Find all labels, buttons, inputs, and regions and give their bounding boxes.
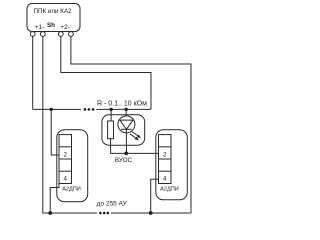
LED triangle bbox=[120, 120, 133, 129]
wire resistor top bbox=[110, 109, 112, 121]
LED cathode bar bbox=[121, 128, 132, 130]
svg-text:4: 4 bbox=[163, 176, 167, 183]
node top bus drop bbox=[50, 108, 53, 111]
LED arrow 2 bbox=[130, 134, 137, 139]
left detector box bbox=[57, 130, 88, 202]
VUOS box bbox=[102, 115, 145, 145]
svg-text:А2ДПИ: А2ДПИ bbox=[160, 187, 179, 193]
svg-text:Sh: Sh bbox=[47, 22, 55, 29]
wire terminal2 down bbox=[43, 36, 97, 213]
bottom bus dots ellipsis bbox=[99, 212, 109, 215]
svg-text:+1-: +1- bbox=[35, 24, 45, 31]
wire bottom bus right bbox=[111, 212, 191, 214]
wire top bus right bbox=[96, 108, 151, 110]
wire resistor bottom bbox=[111, 139, 127, 154]
wire drop to left detector pin2 bbox=[51, 109, 59, 155]
terminal 3 bbox=[58, 32, 63, 37]
svg-text:2: 2 bbox=[163, 151, 167, 158]
svg-text:R - 0.1.. 10 кОм: R - 0.1.. 10 кОм bbox=[97, 101, 147, 108]
top bus dots ellipsis bbox=[84, 108, 95, 111]
svg-text:ППК или КА2: ППК или КА2 bbox=[34, 8, 72, 15]
node LED bottom junction bbox=[124, 152, 128, 156]
right detector box bbox=[156, 130, 188, 200]
resistor R bbox=[108, 121, 114, 139]
terminal 1 bbox=[30, 32, 35, 37]
svg-text:ВУОС: ВУОС bbox=[115, 157, 133, 164]
node left pin4 junction bbox=[48, 211, 52, 215]
terminal 4 bbox=[69, 32, 74, 37]
svg-text:до 255 АУ: до 255 АУ bbox=[97, 200, 128, 207]
svg-text:+2-: +2- bbox=[60, 24, 70, 31]
node resistor top bbox=[109, 108, 112, 111]
wire bottom vuos bus to right pin2 bbox=[126, 152, 158, 154]
wire LED bottom bbox=[125, 129, 127, 153]
panel PPK box bbox=[27, 4, 80, 32]
LED arrow 1 bbox=[132, 132, 139, 137]
node right pin4 junction bbox=[149, 211, 153, 215]
svg-text:4: 4 bbox=[63, 176, 67, 183]
terminal 2 bbox=[40, 32, 45, 37]
wire left detector pin4 bbox=[50, 184, 59, 214]
wire right detector pin4 bbox=[151, 179, 159, 213]
svg-text:А2ДПИ: А2ДПИ bbox=[62, 187, 81, 193]
wire terminal4 outer loop bbox=[71, 36, 191, 213]
LED circle bbox=[118, 116, 135, 133]
wire terminal3 to right drop bbox=[61, 36, 151, 109]
right detector terminal strip bbox=[159, 135, 172, 184]
node LED top bbox=[125, 108, 128, 111]
svg-text:2: 2 bbox=[63, 151, 67, 158]
wire LED top bbox=[125, 109, 127, 116]
left detector terminal strip bbox=[59, 135, 72, 184]
wire terminal1 down bbox=[32, 36, 34, 109]
wire top bus left bbox=[33, 108, 81, 110]
